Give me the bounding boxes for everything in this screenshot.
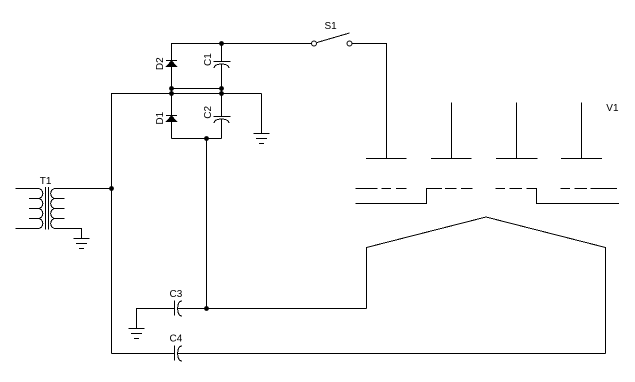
capacitor C3 <box>175 301 182 317</box>
tube V1 grid right <box>496 189 620 204</box>
diode D2 <box>166 61 177 67</box>
capacitor C4 <box>175 346 182 362</box>
wire C3 ground lead <box>136 308 175 329</box>
wire middle rail lower <box>111 93 262 95</box>
junction C branch lower rail <box>219 91 224 96</box>
wire C4 to filament <box>178 353 606 355</box>
tube V1 anode plate 3 <box>496 158 538 160</box>
junction D branch lower rail <box>169 91 174 96</box>
capacitor C2 <box>214 117 231 124</box>
junction D branch upper rail <box>169 86 174 91</box>
junction C branch upper rail <box>219 86 224 91</box>
transformer T1 secondary winding <box>51 189 112 229</box>
svg-text:C1: C1 <box>203 53 214 66</box>
wire C3 to filament <box>178 308 367 310</box>
svg-text:D1: D1 <box>155 111 166 124</box>
svg-text:T1: T1 <box>40 176 52 187</box>
wire C2 bottom lead <box>221 119 223 138</box>
tube V1 anode plate 1 <box>366 158 407 160</box>
wire T1 secondary bottom to ground <box>81 228 83 239</box>
ground T1 secondary <box>74 239 90 249</box>
wire to filter ground <box>261 94 263 134</box>
diode D1 <box>166 116 177 122</box>
tube V1 anode lead 3 <box>516 103 518 159</box>
wire filament left lead <box>366 247 368 309</box>
ground C3 <box>129 329 145 339</box>
wire C1 to C2 <box>221 64 223 116</box>
wire filament right lead <box>605 247 607 354</box>
tube V1 anode lead 2 <box>451 103 453 159</box>
tube V1 anode plate 4 <box>561 158 602 160</box>
junction T1 secondary / left rail <box>109 186 114 191</box>
wire top rail <box>171 43 312 45</box>
transformer T1 core <box>46 187 49 229</box>
svg-text:C3: C3 <box>170 289 183 300</box>
transformer T1 primary winding <box>16 189 43 229</box>
wire bridge bottom <box>172 138 222 140</box>
capacitor C1 <box>214 62 231 69</box>
wire C1 top lead <box>221 44 223 62</box>
junction bridge bottom <box>204 136 209 141</box>
svg-text:C2: C2 <box>203 105 214 118</box>
svg-text:V1: V1 <box>606 103 619 114</box>
wire center drop <box>206 139 208 309</box>
wire diode branch <box>171 44 173 139</box>
tube V1 anode plate 2 <box>431 158 472 160</box>
switch S1 <box>312 33 353 46</box>
wire switch to anode 1 <box>352 44 387 159</box>
svg-text:C4: C4 <box>170 334 183 345</box>
junction top rail / C1 <box>219 41 224 46</box>
wire C4 left lead <box>112 353 175 355</box>
tube V1 filament roof <box>367 217 606 248</box>
junction C3 node <box>204 306 209 311</box>
svg-text:S1: S1 <box>325 21 338 32</box>
tube V1 grid left <box>356 189 473 204</box>
wire left rail <box>111 93 113 354</box>
wire middle rail upper <box>172 88 222 90</box>
tube V1 anode lead 4 <box>581 103 583 159</box>
ground filter <box>254 134 270 144</box>
svg-text:D2: D2 <box>155 57 166 70</box>
